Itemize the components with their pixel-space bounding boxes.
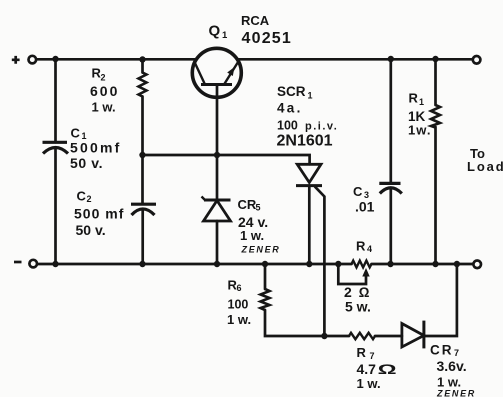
svg-text:5 w.: 5 w.	[345, 299, 371, 315]
zener diode CR5	[202, 197, 231, 222]
svg-text:40251: 40251	[242, 30, 293, 47]
svg-text:600: 600	[90, 83, 119, 99]
node dot top rail C1	[52, 56, 58, 62]
capacitor C2	[131, 204, 156, 215]
node dot top rail R2	[139, 56, 145, 62]
svg-text:Ω: Ω	[378, 361, 397, 377]
svg-text:3.6v.: 3.6v.	[437, 358, 467, 374]
svg-text:CR: CR	[430, 343, 454, 358]
resistor R4 wiper arrow	[362, 268, 369, 277]
resistor R4 (rheostat)	[352, 261, 372, 268]
resistor R2	[139, 73, 147, 97]
svg-text:1 w.: 1 w.	[92, 100, 116, 115]
svg-text:.01: .01	[355, 199, 375, 215]
svg-text:2: 2	[101, 73, 106, 83]
capacitor C1	[43, 142, 69, 153]
svg-text:4.7: 4.7	[357, 361, 377, 377]
wire CR7 to right branch up	[424, 264, 457, 336]
svg-text:50 v.: 50 v.	[76, 222, 106, 238]
wire R1 branch	[434, 59, 437, 264]
node dot neg rail R1	[432, 261, 438, 267]
terminal output top	[473, 56, 481, 64]
wire top rail left	[36, 58, 196, 61]
svg-text:p.i.v.: p.i.v.	[305, 121, 338, 133]
svg-text:100: 100	[277, 119, 298, 133]
wire R2/C2 branch	[141, 59, 144, 264]
wire CR5 leads	[216, 155, 219, 264]
svg-text:Load: Load	[467, 159, 503, 174]
resistor R1	[431, 105, 440, 128]
node dot neg rail R6	[262, 261, 268, 267]
wire negative rail left	[37, 263, 352, 266]
wire C1 branch	[54, 59, 57, 264]
diode CR7 (zener)	[402, 321, 424, 349]
wire R6 branch and bottom wire left	[265, 264, 349, 336]
resistor R6	[261, 289, 270, 310]
node dot neg rail C3	[387, 261, 393, 267]
minus sign	[14, 261, 22, 264]
svg-text:C: C	[353, 184, 363, 199]
node dot mid wire R2/C2	[139, 152, 145, 158]
svg-text:ZENER: ZENER	[436, 389, 476, 397]
svg-text:Q: Q	[209, 23, 221, 40]
terminal output bottom	[473, 261, 481, 269]
svg-text:1 w.: 1 w.	[437, 375, 461, 390]
resistor R7	[349, 333, 375, 339]
svg-text:5: 5	[256, 203, 261, 213]
wire Q1 base lead	[216, 85, 219, 156]
svg-text:ZENER: ZENER	[241, 245, 281, 255]
node dot neg rail SCR cathode	[306, 261, 312, 267]
svg-text:2N1601: 2N1601	[277, 133, 333, 150]
svg-text:1 w.: 1 w.	[227, 312, 251, 327]
svg-text:500mf: 500mf	[70, 140, 121, 156]
plus sign	[12, 56, 20, 64]
svg-text:500 mf: 500 mf	[74, 206, 124, 222]
node dot neg rail CR5	[214, 261, 220, 267]
svg-text:C: C	[77, 189, 87, 204]
wire negative rail right	[372, 263, 474, 266]
node dot neg rail CR7 branch	[454, 261, 460, 267]
wire SCR cathode lead	[308, 186, 311, 264]
terminal input -	[29, 260, 37, 268]
wire C3 branch	[389, 59, 392, 264]
svg-text:RCA: RCA	[241, 13, 270, 28]
svg-text:1 w.: 1 w.	[357, 376, 381, 391]
node dot top rail R1	[432, 56, 438, 62]
svg-text:4: 4	[367, 244, 372, 254]
svg-text:1: 1	[308, 91, 313, 101]
node dot mid wire base	[214, 152, 220, 158]
svg-text:7: 7	[370, 351, 375, 361]
wire top rail right	[238, 58, 473, 61]
svg-text:1: 1	[222, 30, 228, 41]
wire mid (base node to SCR anode)	[143, 155, 310, 164]
svg-text:1w.: 1w.	[408, 123, 431, 138]
svg-text:R: R	[357, 345, 367, 360]
svg-text:2: 2	[87, 194, 92, 204]
capacitor C3	[379, 183, 402, 193]
svg-text:6: 6	[237, 283, 242, 293]
node dot bottom wire gate	[321, 333, 327, 339]
svg-text:1 w.: 1 w.	[240, 228, 264, 243]
wire R4 wiper loop	[338, 264, 366, 284]
wire SCR gate lead	[315, 187, 324, 336]
svg-text:SCR: SCR	[277, 84, 306, 99]
wire bottom middle	[375, 335, 402, 338]
svg-text:R: R	[356, 239, 366, 254]
transistor Q1	[192, 48, 241, 97]
svg-text:1: 1	[419, 97, 424, 107]
svg-text:CR: CR	[238, 197, 257, 212]
svg-text:50 v.: 50 v.	[70, 155, 103, 171]
svg-text:C: C	[71, 126, 81, 141]
svg-text:7: 7	[454, 348, 459, 358]
node dot neg rail wiper	[335, 261, 341, 267]
node dot neg rail C1	[52, 261, 58, 267]
node dot neg rail C2	[139, 261, 145, 267]
node dot top rail C3	[388, 56, 394, 62]
svg-text:R: R	[409, 91, 419, 106]
terminal input +	[29, 56, 37, 64]
SCR1	[296, 164, 322, 185]
svg-text:4a.: 4a.	[277, 101, 303, 116]
svg-text:100: 100	[228, 298, 249, 312]
